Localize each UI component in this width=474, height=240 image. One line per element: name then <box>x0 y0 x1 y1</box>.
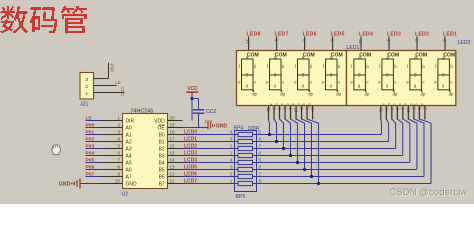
svg-text:P06: P06 <box>86 164 95 170</box>
svg-text:dp: dp <box>252 92 257 97</box>
svg-text:COM: COM <box>387 53 399 59</box>
svg-text:COM: COM <box>415 53 427 59</box>
svg-text:P04: P04 <box>86 150 95 156</box>
svg-text:LED6: LED6 <box>303 31 317 37</box>
svg-text:12: 12 <box>170 171 176 176</box>
svg-text:15: 15 <box>170 150 176 155</box>
svg-text:14: 14 <box>170 157 176 162</box>
svg-text:11: 11 <box>170 178 175 183</box>
svg-text:2: 2 <box>117 122 120 127</box>
svg-text:8: 8 <box>414 39 419 42</box>
svg-text:b: b <box>275 104 279 106</box>
svg-text:A2: A2 <box>126 139 132 145</box>
svg-text:LED8: LED8 <box>247 31 261 37</box>
svg-text:CSDN @codercjw: CSDN @codercjw <box>390 187 468 197</box>
svg-text:LCD1: LCD1 <box>184 136 197 142</box>
svg-text:P10: P10 <box>110 64 115 73</box>
svg-text:e: e <box>291 104 295 106</box>
svg-text:B4: B4 <box>159 160 165 166</box>
svg-text:B2: B2 <box>159 146 165 152</box>
svg-text:COM: COM <box>443 53 455 59</box>
svg-text:6: 6 <box>117 150 120 155</box>
svg-text:d: d <box>286 104 290 106</box>
svg-text:P07: P07 <box>86 171 95 177</box>
svg-text:GND: GND <box>126 181 138 187</box>
svg-text:B6: B6 <box>159 174 165 180</box>
svg-text:VDD: VDD <box>154 118 165 124</box>
svg-text:P03: P03 <box>86 143 95 149</box>
svg-text:P01: P01 <box>86 129 95 135</box>
svg-text:11: 11 <box>266 107 271 112</box>
svg-text:e: e <box>403 104 407 106</box>
svg-text:P02: P02 <box>86 136 95 142</box>
svg-text:RP5: RP5 <box>236 194 246 200</box>
svg-text:104: 104 <box>205 119 213 125</box>
svg-text:dp: dp <box>336 92 341 97</box>
svg-text:c: c <box>367 80 369 85</box>
svg-text:c: c <box>392 104 396 106</box>
svg-text:LCD0: LCD0 <box>184 129 197 135</box>
svg-text:B5: B5 <box>159 167 165 173</box>
svg-text:RP4: RP4 <box>234 126 244 132</box>
svg-text:A5: A5 <box>126 160 132 166</box>
svg-text:LCD2: LCD2 <box>184 143 197 149</box>
svg-text:VCC: VCC <box>187 86 198 92</box>
svg-text:B7: B7 <box>159 181 165 187</box>
svg-text:c: c <box>395 80 397 85</box>
svg-text:COM: COM <box>275 53 287 59</box>
svg-text:CC2: CC2 <box>206 109 216 115</box>
svg-text:12: 12 <box>358 39 363 45</box>
svg-text:LED3: LED3 <box>387 31 401 37</box>
svg-text:c: c <box>451 80 453 85</box>
svg-text:LED4: LED4 <box>359 31 373 37</box>
svg-text:COM: COM <box>247 53 259 59</box>
svg-text:P05: P05 <box>86 157 95 163</box>
svg-text:U2: U2 <box>122 191 129 197</box>
svg-text:LCD5: LCD5 <box>184 164 197 170</box>
svg-text:16: 16 <box>170 143 176 148</box>
svg-text:LCD6: LCD6 <box>184 171 197 177</box>
svg-text:LCD3: LCD3 <box>184 150 197 156</box>
svg-text:VCC: VCC <box>120 87 125 97</box>
svg-text:9: 9 <box>273 39 278 42</box>
svg-text:GND: GND <box>59 182 71 188</box>
svg-text:dp: dp <box>393 92 398 97</box>
svg-text:LCD7: LCD7 <box>184 178 197 184</box>
svg-text:LCD4: LCD4 <box>184 157 197 163</box>
svg-text:12: 12 <box>245 39 250 45</box>
svg-text:g: g <box>414 104 418 106</box>
svg-text:OE: OE <box>157 125 165 131</box>
svg-text:c: c <box>282 80 284 85</box>
svg-text:c: c <box>310 80 312 85</box>
svg-text:20: 20 <box>170 115 176 120</box>
svg-text:f: f <box>409 104 413 105</box>
svg-text:6: 6 <box>329 39 334 42</box>
svg-text:18: 18 <box>170 129 176 134</box>
svg-text:a: a <box>269 104 273 106</box>
svg-text:19: 19 <box>170 122 176 127</box>
svg-text:13: 13 <box>170 164 176 169</box>
svg-text:d: d <box>398 104 402 106</box>
svg-text:3: 3 <box>85 77 88 83</box>
svg-text:A1: A1 <box>126 132 132 138</box>
svg-text:LED5: LED5 <box>331 31 345 37</box>
svg-text:LED2: LED2 <box>458 40 471 46</box>
svg-text:1: 1 <box>85 91 88 97</box>
svg-text:9: 9 <box>386 39 391 42</box>
svg-text:3: 3 <box>117 129 120 134</box>
svg-text:COM: COM <box>303 53 315 59</box>
svg-text:B0: B0 <box>159 132 165 138</box>
svg-text:dp: dp <box>365 92 370 97</box>
svg-text:6: 6 <box>442 39 447 42</box>
svg-text:P00: P00 <box>86 122 95 128</box>
svg-text:8: 8 <box>301 39 306 42</box>
svg-text:A3: A3 <box>126 146 132 152</box>
svg-text:11: 11 <box>378 107 383 112</box>
svg-text:8: 8 <box>117 164 120 169</box>
svg-text:LED2: LED2 <box>415 31 429 37</box>
svg-text:A6: A6 <box>126 167 132 173</box>
svg-text:dp: dp <box>421 92 426 97</box>
svg-text:c: c <box>338 80 340 85</box>
svg-text:10: 10 <box>294 107 299 113</box>
svg-text:LED1: LED1 <box>346 45 359 51</box>
svg-text:GND: GND <box>216 123 228 129</box>
svg-text:100R: 100R <box>248 126 260 132</box>
svg-text:17: 17 <box>170 136 176 141</box>
svg-text:b: b <box>387 104 391 106</box>
svg-text:5: 5 <box>117 143 120 148</box>
svg-text:9: 9 <box>117 171 120 176</box>
svg-text:1: 1 <box>117 115 120 120</box>
svg-text:c: c <box>423 80 425 85</box>
svg-text:dp: dp <box>308 92 313 97</box>
svg-text:a: a <box>381 104 385 106</box>
svg-text:LED7: LED7 <box>275 31 289 37</box>
svg-text:c: c <box>254 80 256 85</box>
svg-text:f: f <box>297 104 301 105</box>
svg-text:c: c <box>280 104 284 106</box>
svg-text:10: 10 <box>115 178 121 183</box>
svg-text:B3: B3 <box>159 153 165 159</box>
svg-text:DIR: DIR <box>126 118 135 124</box>
svg-text:B1: B1 <box>159 139 165 145</box>
svg-text:dp: dp <box>280 92 285 97</box>
svg-text:A7: A7 <box>126 174 132 180</box>
svg-text:COM: COM <box>359 53 371 59</box>
svg-text:4: 4 <box>117 136 120 141</box>
svg-text:7: 7 <box>117 157 120 162</box>
svg-text:LE: LE <box>115 80 121 85</box>
svg-text:LE: LE <box>86 115 93 121</box>
svg-text:74HC245: 74HC245 <box>131 109 154 115</box>
svg-text:LED1: LED1 <box>443 31 457 37</box>
svg-text:dp: dp <box>449 92 454 97</box>
svg-text:10: 10 <box>406 107 411 113</box>
svg-text:J21: J21 <box>80 102 88 108</box>
svg-text:COM: COM <box>331 53 343 59</box>
svg-text:A4: A4 <box>126 153 132 159</box>
svg-text:g: g <box>302 104 306 106</box>
svg-text:A0: A0 <box>126 125 132 131</box>
svg-text:2: 2 <box>85 84 88 90</box>
